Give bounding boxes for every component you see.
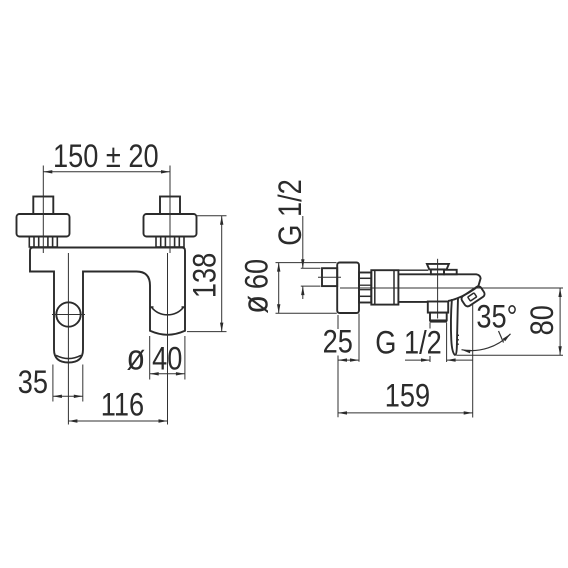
spout cap seam — [150, 307, 185, 315]
dimension 35 line — [53, 395, 83, 397]
dimension ø40 extension line left — [149, 336, 151, 380]
cartridge housing — [371, 270, 398, 304]
dimension ø60 line — [278, 263, 280, 314]
dimension 150±20 line — [43, 171, 170, 173]
circle horizontal crosshair — [52, 314, 85, 316]
svg-text:150 ± 20: 150 ± 20 — [53, 139, 159, 175]
spout blade rear edge — [451, 299, 455, 355]
svg-text:35°: 35° — [476, 299, 517, 335]
svg-text:ø: ø — [236, 295, 276, 314]
dimension 116 line — [68, 420, 167, 422]
hand-shower outlet upper block — [428, 302, 448, 313]
body tube bottom edge — [398, 301, 428, 303]
wall escutcheon flange — [337, 263, 359, 314]
dimension 35 extension line left — [52, 365, 54, 402]
svg-text:138: 138 — [187, 253, 223, 298]
right eccentric union body — [144, 214, 197, 237]
dimension 138 extension line top — [197, 215, 227, 217]
hand-shower outlet lower block — [430, 313, 447, 321]
svg-text:G 1/2: G 1/2 — [375, 325, 442, 361]
svg-text:G 1/2: G 1/2 — [273, 179, 309, 246]
dimension 150±20 extension line right — [169, 166, 171, 254]
svg-text:40: 40 — [152, 341, 182, 377]
inlet fitting centreline — [318, 276, 341, 278]
svg-text:80: 80 — [525, 305, 561, 335]
hand-shower outlet thread end — [430, 320, 447, 322]
dimension ø60 extension line bottom — [276, 312, 337, 314]
spout blade front edge — [455, 298, 458, 355]
diverter knob collar — [431, 269, 444, 274]
handle screw boss circle — [56, 302, 80, 326]
dimension 25 line — [338, 359, 359, 361]
G1/2 outlet extension line right — [446, 323, 448, 362]
dimension 35 extension line right — [82, 365, 84, 402]
svg-text:60: 60 — [239, 259, 275, 289]
diverter knob — [427, 264, 449, 270]
dimension 150±20 extension line left — [42, 166, 44, 254]
diverter centreline — [437, 259, 439, 319]
G1/2 inlet leader line — [302, 216, 304, 268]
left eccentric union body — [17, 214, 70, 237]
right union threaded shank — [156, 237, 184, 248]
svg-text:ø: ø — [126, 338, 145, 378]
body axis centreline — [340, 287, 563, 289]
dimension 159 line — [338, 412, 473, 414]
dimension 159 extension line right — [472, 305, 474, 418]
mixer body with handle and spout (front view) — [30, 248, 185, 363]
dimension 80 line — [559, 288, 561, 355]
dimension ø40 line — [150, 373, 185, 375]
body bottom curve to lever pivot — [448, 286, 478, 301]
dimension 80 extension line bottom — [457, 354, 564, 356]
left union threaded shank — [29, 237, 57, 248]
G1/2 inlet extension stubs — [301, 267, 321, 269]
handle bottom cap seam — [56, 355, 81, 358]
dimension ø40 extension line right — [184, 336, 186, 380]
G1/2 outlet extension line left — [429, 323, 431, 329]
G1/2 inlet lower arrow — [302, 286, 304, 299]
35° leader line — [499, 331, 504, 343]
svg-text:159: 159 — [385, 378, 430, 414]
lever handle (35° tilted) — [460, 285, 486, 308]
diverter boss step — [444, 270, 457, 275]
dimension 138 line — [221, 216, 223, 332]
left wall-union hex nut — [33, 197, 53, 215]
spout blade aerator ticks — [457, 334, 459, 336]
body tube top edge — [398, 274, 480, 285]
svg-text:116: 116 — [101, 387, 144, 423]
union hex nut (side view) — [359, 273, 371, 303]
right wall-union hex nut — [160, 197, 180, 215]
35° swing arc — [462, 334, 511, 351]
dimension 25 extension line right — [358, 314, 360, 362]
wall inlet fitting G1/2 — [322, 268, 337, 286]
svg-text:35: 35 — [18, 365, 48, 401]
body deck line — [398, 269, 428, 271]
svg-text:25: 25 — [323, 324, 353, 360]
dimension 138 extension line bottom — [187, 331, 227, 333]
handle centreline / extension line — [67, 253, 69, 425]
dimension ø60 extension line top — [276, 262, 337, 264]
spout centreline / extension line — [167, 253, 169, 425]
dimension 25 extension line left (wall plane) — [337, 315, 339, 329]
G1/2 outlet dimension line — [405, 359, 430, 361]
